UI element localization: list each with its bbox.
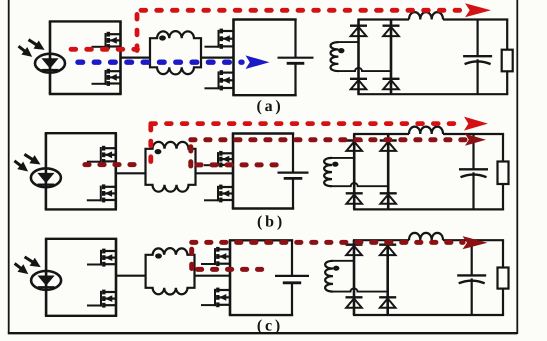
PV cell D_pv (row b) [31,168,61,187]
power flow arrowhead (a) red [465,3,491,17]
transformer T1 (row b) [146,142,196,192]
diode D2 (row b) [380,141,397,151]
transistor Q1 (row c) [87,249,116,267]
wire load branch upper (row c) [502,240,504,267]
transistor Q4 (row a) [205,70,234,90]
wire bridge midpoint to transformer primary (row c) [116,275,146,277]
wire secondary top lead (row a) [337,41,358,43]
PV cell D_pv (row a) [35,54,65,73]
wire output cap branch lower (row a) [477,59,479,94]
wire secondary bottom lead (row b) [331,183,388,186]
power flow path (b) dark-red: branch to DC-link [197,162,277,167]
wire secondary top lead (row c) [332,260,354,262]
wire left-box top rail (row c) [45,238,117,240]
DC-link capacitor C_dc (row a) [278,58,314,64]
wire DC-link lower (row c) [291,283,293,315]
power flow arrowhead (b) red [464,117,488,131]
transistor Q4 (row c) [201,288,230,308]
wire output cap branch upper (row c) [471,240,473,275]
DC-link capacitor C_dc (row b) [278,173,309,179]
power flow path (b) dark-red: from PV side [85,162,143,167]
wire box2 top rail (row b) [232,132,294,134]
wire output cap branch lower (row b) [472,172,474,209]
label (b) [257,213,285,230]
output capacitor C_o (row b) [459,169,488,177]
wire PV branch vertical (row a) [49,21,52,94]
wire load branch lower (row a) [506,71,508,94]
diode D3 (row b) [346,193,363,203]
output capacitor C_o (row a) [463,56,492,64]
light arrow 1 (row a) [29,40,45,50]
wire half-bridge leg 2 (row a) [232,20,235,96]
diode D4 (row b) [380,193,397,203]
wire box2 top rail (row a) [232,18,296,20]
inductor L_f (row c) [409,233,443,240]
wire half-bridge leg 1 (row b) [115,133,118,209]
page border bottom [8,332,518,334]
wire DC-link upper (row b) [292,134,294,173]
wire output top rail right part (row c) [443,239,504,241]
wire output top rail left part (row c) [353,239,409,241]
light arrow 2 (row c) [15,263,29,274]
transformer T1 (row c) [146,248,195,294]
wire output top rail right part (row b) [443,133,504,135]
wire output cap branch upper (row b) [472,134,474,169]
light arrow 1 (row b) [24,154,40,164]
transistor Q1 (row b) [87,146,116,164]
transformer secondary winding (row a) [331,42,345,71]
transistor Q3 (row a) [205,29,234,49]
transistor Q2 (row c) [87,290,116,308]
power flow path (a) red: top run to output [141,8,464,13]
transistor Q3 (row c) [201,247,230,266]
wire DC-link lower (row b) [292,178,294,208]
transistor Q3 (row b) [204,151,233,167]
diode D4 (row a) [383,79,400,89]
transistor Q1 (row a) [92,32,121,49]
wire output bottom rail (row c) [353,314,504,316]
inductor L_f (row b) [409,127,443,134]
page border right [516,0,518,334]
power flow path (c) dark-red: branch to DC-link [198,267,273,272]
power flow path (a) blue: PV to DC-link [78,60,242,65]
output capacitor C_o (row c) [457,275,486,283]
power flow path (c) dark-red: run to output [192,240,463,245]
wire bridge leg A (row c) [353,240,356,315]
wire transformer secondary to half-bridge 2 (row b) [196,172,234,174]
wire half-bridge leg 1 (row c) [115,239,118,316]
wire half-bridge leg 2 (row c) [229,240,232,315]
transistor Q4 (row b) [204,185,233,203]
wire box2 bottom rail (row b) [232,207,294,209]
wire output cap branch lower (row c) [471,278,473,315]
label (c) [257,317,283,334]
wire transformer secondary to half-bridge 2 (row c) [195,275,231,277]
page border left [8,0,10,333]
wire load branch upper (row a) [506,20,508,50]
wire secondary bottom lead (row c) [332,288,388,291]
wire bridge leg B (row b) [387,134,390,209]
wire box2 bottom rail (row a) [232,94,296,96]
load resistor R_o (row a) [502,50,513,72]
diode D2 (row c) [379,245,396,255]
wire secondary top lead (row b) [331,157,354,159]
wire output cap branch upper (row a) [477,20,479,57]
load resistor R_o (row c) [498,268,509,289]
transistor Q2 (row b) [87,184,116,202]
power flow path (a) red: vertical riser [135,12,140,51]
light arrow 2 (row b) [14,161,28,172]
load resistor R_o (row b) [498,162,509,185]
wire bridge leg A (row a) [357,20,360,95]
wire bridge midpoint to transformer primary (row a) [121,56,151,58]
diode D1 (row a) [350,26,367,36]
wire load branch lower (row c) [502,289,504,315]
wire half-bridge leg 2 (row b) [232,134,235,209]
wire DC-link lower (row a) [294,63,296,95]
label (a) [256,98,283,115]
diode D3 (row c) [346,297,363,307]
wire box2 bottom rail (row c) [229,314,293,316]
diode D1 (row c) [346,245,363,255]
wire bridge leg A (row b) [353,134,356,209]
wire output bottom rail (row b) [353,208,504,210]
wire DC-link upper (row c) [291,240,293,276]
wire left-box bottom rail (row a) [49,93,122,95]
power flow path (c) dark-red: riser at transformer output [189,246,194,269]
power flow path (b) red: riser from transformer [148,124,153,162]
svg-text:(b): (b) [257,213,285,230]
svg-text:(a): (a) [256,98,283,115]
wire output top rail left part (row b) [353,133,409,135]
svg-text:(c): (c) [257,317,283,334]
wire transformer secondary to half-bridge 2 (row a) [201,56,234,58]
wire bridge leg B (row a) [390,20,393,95]
wire DC-link upper (row a) [294,20,296,58]
wire left-box bottom rail (row b) [45,208,117,210]
transistor Q2 (row a) [92,69,121,86]
wire half-bridge leg 1 (row a) [119,21,122,94]
transformer secondary winding (row b) [324,158,338,186]
wire left-box top rail (row b) [45,132,117,134]
transformer T1 (row a) [150,31,201,74]
diode D2 (row a) [383,26,400,36]
PV cell D_pv (row c) [31,271,61,290]
wire secondary bottom lead (row a) [337,68,391,71]
wire left-box bottom rail (row c) [45,315,117,317]
diode D4 (row c) [379,297,396,307]
light arrow 1 (row c) [25,257,41,267]
wire bridge midpoint to transformer primary (row b) [116,172,146,174]
power flow path (b) red: top run to output [151,121,464,126]
wire load branch lower (row b) [502,184,504,209]
light arrow 2 (row a) [19,46,33,57]
power flow arrowhead (a) blue [246,55,270,69]
wire load branch upper (row b) [502,134,504,162]
power flow arrowhead (c) dark-red [463,236,488,249]
wire box2 top rail (row c) [229,239,293,241]
power flow path (b) dark-red: run to output [191,137,466,142]
wire bridge leg B (row c) [386,240,389,315]
wire output top rail right part (row a) [443,18,508,20]
diode D3 (row a) [350,79,367,89]
power flow path (a) red: segment from switching node [71,47,138,52]
DC-link capacitor C_dc (row c) [275,276,309,283]
diode D1 (row b) [346,141,363,151]
wire output bottom rail (row a) [357,93,508,95]
power flow arrowhead (b) dark-red [465,134,486,146]
transformer secondary winding (row c) [325,261,339,292]
wire PV branch vertical (row b) [45,133,48,209]
wire PV branch vertical (row c) [45,239,48,316]
wire left-box top rail (row a) [49,20,122,22]
wire output top rail left part (row a) [357,18,409,20]
power flow path (b) dark-red: riser at transformer output [188,141,193,166]
inductor L_f (row a) [409,12,443,19]
